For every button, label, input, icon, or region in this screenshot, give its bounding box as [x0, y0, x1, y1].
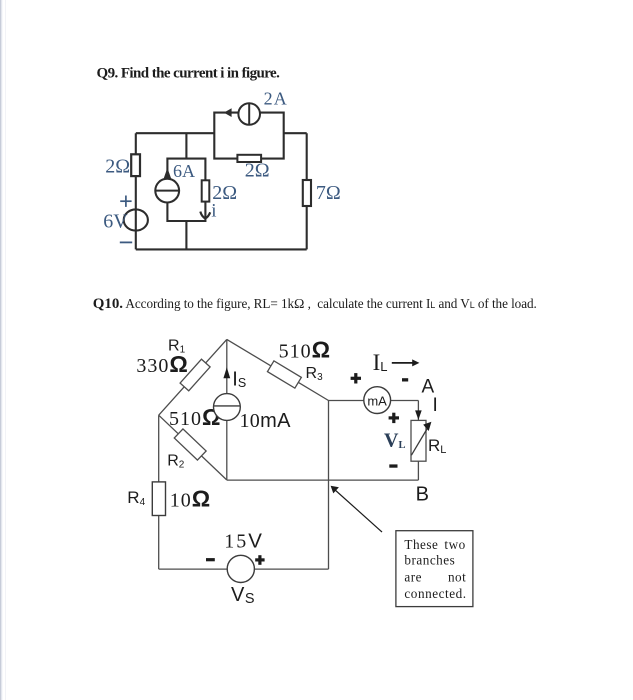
arrow into RL (down): [415, 410, 422, 420]
rheostat RL: [411, 420, 431, 461]
wire: outer right vertical: [306, 133, 308, 249]
current source 2A: [238, 103, 260, 125]
wire: slant left node to bottom node (R2 branch): [159, 415, 227, 480]
svg-text:R2: R2: [167, 453, 185, 471]
wire: R4 to bottom wire: [158, 516, 160, 570]
arrow up (6A source direction): [164, 168, 172, 179]
resistor R1 330ohm (angled): [180, 359, 210, 391]
wire: middle feed vertical lower: [185, 221, 187, 249]
svg-text:IL: IL: [373, 350, 388, 375]
svg-text:2Ω: 2Ω: [105, 156, 130, 178]
wire: left node down to R4: [158, 415, 160, 482]
minus sign of 6V source: [120, 241, 132, 243]
svg-text:i: i: [211, 201, 216, 222]
wire: current source to bottom node: [226, 420, 228, 480]
resistor R2 510ohm (angled): [174, 429, 206, 460]
page left edge: [0, 0, 1, 700]
plus sign (left of meter): [351, 373, 361, 383]
wire: outer bottom: [136, 248, 307, 250]
pointer arrow to crossing: [331, 486, 382, 532]
current source 10mA: [214, 394, 241, 421]
wire: mA meter to corner A: [390, 400, 418, 402]
svg-text:Q10. According to the figure,: Q10. According to the figure, RL= 1kΩ , …: [93, 296, 537, 312]
wire: bottom source wire: [159, 568, 329, 570]
minus sign of Vs: [206, 558, 215, 561]
svg-text:R3: R3: [306, 365, 324, 383]
svg-text:B: B: [416, 483, 429, 505]
current source 6A: [155, 179, 179, 203]
resistor 2ohm horizontal (in top loop): [237, 155, 261, 162]
wire: right corner down through crossing to source loop: [328, 401, 330, 570]
arrow on top loop wire (pointing left): [224, 108, 232, 117]
arrow IL (right): [392, 359, 420, 366]
svg-text:2A: 2A: [264, 89, 288, 109]
ammeter mA: [364, 387, 391, 414]
wire: top loop rectangle: [214, 113, 283, 159]
wire: corner A down to RL: [417, 401, 419, 421]
svg-text:Q9. Find the current i in figu: Q9. Find the current i in figure.: [97, 66, 281, 82]
plus sign (above VL): [389, 413, 399, 423]
svg-text:R4: R4: [127, 488, 145, 508]
wire: outer left vertical: [135, 133, 137, 249]
resistor R4 10ohm: [152, 482, 165, 516]
svg-text:are: are: [404, 570, 422, 585]
svg-text:330Ω: 330Ω: [136, 351, 188, 377]
resistor R3 510ohm (angled): [267, 361, 301, 388]
minus sign (right of meter): [402, 378, 408, 381]
arrow Is (up): [223, 367, 230, 378]
svg-text:branches: branches: [404, 552, 455, 567]
svg-text:connected.: connected.: [404, 586, 466, 601]
svg-text:These: These: [404, 537, 438, 552]
wire: middle feed vertical upper: [185, 133, 187, 158]
wire: right corner to mA meter: [329, 400, 365, 402]
current arrow i (hooked arrowhead): [200, 212, 210, 219]
svg-text:15V: 15V: [224, 529, 262, 552]
resistor 2ohm inner vertical: [202, 180, 210, 201]
wire: outer top-left segment: [136, 132, 215, 134]
svg-text:6V: 6V: [103, 211, 128, 233]
svg-text:2Ω: 2Ω: [245, 160, 270, 182]
svg-text:mA: mA: [367, 393, 387, 408]
voltage source 15V: [227, 555, 254, 582]
wire: bridge bottom horizontal: [227, 479, 419, 481]
wire: RL bottom to B corner: [417, 461, 419, 480]
svg-text:7Ω: 7Ω: [316, 182, 341, 204]
wire: apex to current source vertical: [226, 339, 228, 393]
wire: slant apex to left node (R1 branch): [159, 339, 227, 415]
svg-text:I: I: [433, 395, 438, 416]
svg-text:VL: VL: [384, 429, 405, 451]
svg-text:10mA: 10mA: [240, 410, 292, 432]
svg-text:two: two: [444, 537, 465, 552]
svg-text:not: not: [448, 570, 466, 585]
svg-text:VS: VS: [231, 584, 255, 607]
resistor 7ohm: [303, 180, 311, 206]
svg-text:IS: IS: [232, 368, 246, 390]
minus sign (below VL): [389, 464, 397, 467]
wire: outer top-right segment: [284, 132, 307, 134]
wire: slant apex to right corner (R3 branch): [227, 339, 329, 400]
plus sign of 6V source: [120, 196, 131, 207]
svg-text:6A: 6A: [173, 161, 195, 181]
resistor 2ohm left: [131, 154, 140, 176]
svg-text:10Ω: 10Ω: [170, 486, 211, 512]
plus sign of Vs: [255, 555, 264, 565]
callout box: [396, 531, 473, 607]
svg-text:510Ω: 510Ω: [279, 337, 331, 363]
wire: inner loop rectangle: [167, 159, 205, 221]
voltage source 6V: [124, 209, 148, 230]
svg-text:RL: RL: [428, 436, 446, 456]
